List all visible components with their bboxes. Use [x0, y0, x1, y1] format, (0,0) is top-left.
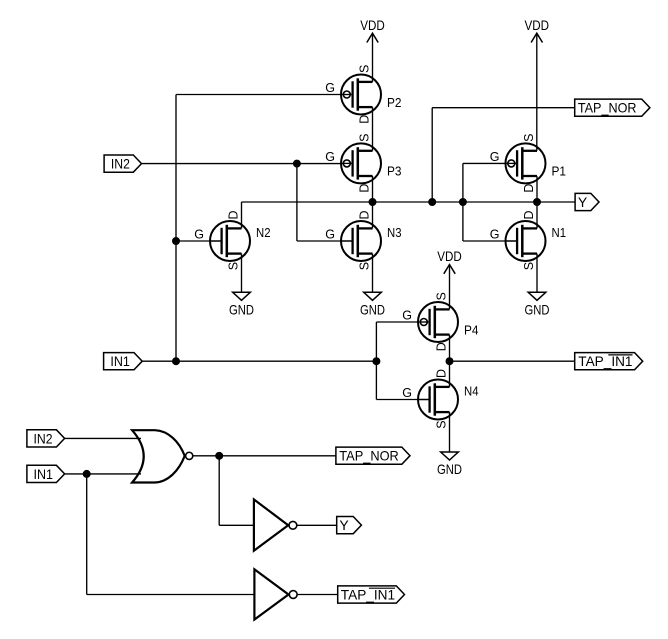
svg-text:D: D	[357, 184, 371, 193]
junction	[459, 199, 466, 206]
wire	[537, 201, 575, 203]
net label TAP_NOR	[575, 99, 650, 116]
wire	[142, 163, 344, 165]
svg-text:S: S	[434, 292, 448, 300]
wire	[218, 456, 220, 525]
wire	[176, 240, 222, 242]
wire	[462, 163, 464, 241]
wire	[372, 107, 374, 151]
svg-text:D: D	[434, 369, 448, 378]
svg-text:N1: N1	[552, 226, 567, 240]
svg-text:GND: GND	[525, 301, 550, 317]
svg-text:G: G	[325, 81, 335, 95]
wire	[372, 254, 374, 293]
wire	[463, 240, 517, 242]
svg-text:N2: N2	[256, 226, 271, 240]
svg-text:GND: GND	[229, 301, 254, 317]
wire	[297, 524, 337, 526]
svg-text:G: G	[194, 228, 204, 242]
svg-text:D: D	[357, 210, 371, 219]
nmos transistor N3	[325, 210, 401, 270]
power VDD	[437, 248, 462, 309]
junction	[369, 199, 376, 206]
svg-text:S: S	[434, 420, 448, 428]
svg-text:S: S	[522, 134, 536, 142]
junction	[216, 452, 223, 459]
wire	[87, 594, 255, 596]
wire	[450, 360, 575, 362]
wire	[376, 321, 420, 323]
svg-text:S: S	[226, 262, 240, 270]
svg-text:D: D	[434, 342, 448, 351]
wire	[297, 594, 338, 596]
svg-text:P3: P3	[387, 165, 402, 179]
net label Y	[575, 193, 599, 210]
junction	[373, 358, 380, 365]
svg-text:TAP_NOR: TAP_NOR	[339, 448, 399, 464]
svg-text:N4: N4	[464, 385, 479, 399]
svg-text:S: S	[357, 65, 371, 73]
nor gate	[132, 430, 193, 482]
svg-text:G: G	[490, 150, 500, 164]
junction	[173, 238, 180, 245]
svg-text:IN2: IN2	[34, 430, 53, 446]
net label IN1	[27, 465, 65, 482]
net label TAP_IN1	[338, 586, 405, 603]
wire	[536, 254, 538, 293]
wire	[372, 176, 374, 228]
junction	[429, 199, 436, 206]
svg-text:G: G	[325, 228, 335, 242]
wire	[449, 412, 451, 452]
svg-text:GND: GND	[360, 301, 385, 317]
svg-text:TAP_IN1: TAP_IN1	[341, 587, 396, 603]
junction	[173, 358, 180, 365]
wire	[376, 399, 429, 401]
svg-text:IN1: IN1	[110, 353, 130, 369]
wire	[242, 201, 538, 203]
svg-text:D: D	[357, 115, 371, 124]
svg-text:VDD: VDD	[525, 17, 550, 33]
wire	[375, 322, 377, 400]
power VDD	[525, 17, 550, 151]
power VDD	[360, 17, 385, 82]
nmos transistor N4	[402, 369, 478, 429]
svg-text:G: G	[402, 309, 412, 323]
svg-text:D: D	[522, 210, 536, 219]
pmos transistor P3	[325, 134, 401, 193]
svg-text:VDD: VDD	[437, 248, 462, 264]
ground	[360, 292, 385, 317]
wire	[65, 437, 141, 439]
svg-text:Y: Y	[339, 517, 349, 533]
svg-text:P1: P1	[552, 165, 567, 179]
net label TAP_NOR	[336, 447, 410, 464]
ground	[525, 292, 550, 317]
svg-text:G: G	[325, 150, 335, 164]
junction	[293, 160, 300, 167]
net label IN2	[27, 430, 65, 447]
wire	[176, 94, 343, 96]
wire	[536, 176, 538, 228]
wire	[241, 202, 243, 228]
pmos transistor P1	[490, 134, 566, 193]
wire	[142, 360, 376, 362]
wire	[449, 335, 451, 387]
wire	[193, 455, 336, 457]
svg-text:VDD: VDD	[360, 17, 385, 33]
svg-text:S: S	[357, 134, 371, 142]
svg-text:S: S	[357, 262, 371, 270]
inverter (TAP_IN1 buffer)	[254, 569, 297, 619]
svg-text:GND: GND	[437, 461, 462, 477]
nmos transistor N2	[194, 210, 270, 270]
pmos transistor P4	[402, 292, 478, 351]
junction	[446, 358, 453, 365]
svg-text:P2: P2	[387, 96, 402, 110]
wire	[65, 473, 141, 475]
wire	[297, 240, 353, 242]
wire	[463, 162, 508, 164]
net label Y	[337, 517, 362, 534]
svg-text:TAP_IN1: TAP_IN1	[578, 353, 632, 369]
wire	[432, 107, 575, 109]
ground	[229, 292, 254, 317]
wire	[431, 108, 433, 202]
svg-text:Y: Y	[578, 194, 588, 210]
svg-text:IN2: IN2	[111, 156, 130, 172]
nmos transistor N1	[490, 210, 566, 270]
svg-text:G: G	[402, 386, 412, 400]
svg-text:IN1: IN1	[34, 466, 54, 482]
wire	[86, 474, 88, 595]
svg-text:D: D	[226, 210, 240, 219]
svg-text:TAP_NOR: TAP_NOR	[578, 100, 637, 116]
junction	[83, 470, 90, 477]
junction	[534, 199, 541, 206]
svg-text:P4: P4	[464, 323, 479, 337]
svg-text:N3: N3	[387, 226, 402, 240]
svg-text:S: S	[522, 262, 536, 270]
svg-text:G: G	[490, 228, 500, 242]
pmos transistor P2	[325, 65, 401, 124]
net label IN1	[104, 353, 143, 370]
svg-text:D: D	[522, 184, 536, 193]
inverter (Y buffer)	[254, 499, 297, 550]
net label TAP_IN1	[575, 353, 643, 370]
wire	[241, 254, 243, 293]
wire	[219, 524, 254, 526]
net label IN2	[104, 155, 141, 172]
ground	[437, 452, 462, 477]
wire	[296, 164, 298, 241]
wire	[175, 95, 177, 362]
